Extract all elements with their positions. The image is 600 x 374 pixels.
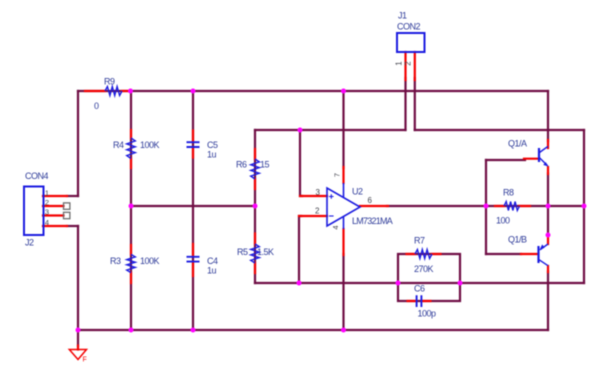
svg-text:4: 4 [45, 218, 49, 227]
svg-text:F: F [83, 357, 87, 364]
resistor R3 pins [130, 245, 132, 283]
capacitor C5 plates [187, 142, 200, 147]
resistor R5 zigzag [251, 244, 260, 263]
wire Q1/B base link [486, 253, 521, 255]
wire R4/R3 column [130, 91, 132, 330]
ground pin stub [77, 346, 79, 350]
connector J2 pin2 no-connect square [64, 203, 70, 209]
svg-text:J2: J2 [25, 238, 34, 248]
connector J1 box [397, 33, 425, 52]
svg-text:4: 4 [331, 225, 340, 229]
svg-text:R6: R6 [236, 160, 247, 170]
wire Q1/B collector vertical [547, 272, 549, 331]
svg-text:2: 2 [404, 61, 413, 66]
op-amp pin 2 lead [299, 215, 327, 217]
svg-text:100K: 100K [140, 140, 160, 150]
op-amp pin7 inner lead [343, 183, 345, 197]
svg-text:6: 6 [368, 196, 373, 205]
wire op-amp pin2 branch [299, 216, 301, 283]
op-amp pin 6 output lead [360, 205, 388, 207]
wire op-amp pin7 branch [342, 91, 344, 168]
op-amp pin 3 lead [300, 195, 327, 197]
connector J2 box [24, 187, 44, 236]
op-amp pin4 inner lead [343, 217, 345, 229]
svg-text:15: 15 [260, 160, 270, 170]
svg-text:1: 1 [45, 188, 49, 197]
wire op-amp pin3 branch [300, 130, 302, 196]
resistor R4 pins [130, 130, 132, 168]
resistor R5 pins [254, 234, 256, 274]
svg-text:270K: 270K [414, 264, 434, 274]
capacitor C4 pins [192, 244, 194, 276]
wire J2 pin4 link [67, 225, 78, 227]
wire Q1/A base link [486, 159, 525, 161]
svg-text:R8: R8 [503, 188, 514, 198]
wire Q1 emitters vertical [547, 174, 549, 237]
svg-text:Q1/A: Q1/A [508, 139, 527, 149]
svg-text:R4: R4 [113, 140, 124, 150]
resistor R9 zigzag [105, 87, 122, 96]
svg-text:C5: C5 [207, 140, 218, 150]
wire J1 pin2 vertical [414, 78, 416, 130]
wire middle horizontal R4-R6 [131, 205, 255, 207]
ground symbol [69, 350, 86, 360]
svg-text:R9: R9 [104, 77, 115, 87]
wire Q1 base column [485, 160, 487, 254]
resistor R9 pins [85, 90, 129, 92]
svg-text:CON4: CON4 [25, 171, 48, 181]
wire R6/R5 column [254, 130, 256, 283]
wire R7/C6 loop [398, 254, 460, 301]
wire C5/C4 column [192, 91, 194, 330]
op-amp U1 triangle [327, 188, 360, 226]
svg-text:Q1/B: Q1/B [508, 235, 527, 245]
wire node net y130 left [255, 129, 406, 131]
svg-text:1.5K: 1.5K [257, 247, 274, 257]
resistor R7 pins [407, 253, 441, 255]
resistor R4 zigzag [127, 138, 136, 159]
wire bottom ground rail [78, 329, 548, 331]
op-amp minus sign [329, 215, 334, 217]
resistor R6 pins [254, 149, 256, 189]
capacitor C5 pins [192, 131, 194, 158]
svg-text:C6: C6 [414, 284, 425, 294]
wire ground lead [77, 330, 79, 346]
wire right vertical x584 [583, 130, 585, 283]
op-amp plus sign [329, 194, 334, 199]
wire top rail [78, 90, 548, 92]
svg-text:3: 3 [316, 188, 321, 197]
svg-text:R5: R5 [237, 247, 248, 257]
svg-text:CON2: CON2 [397, 22, 420, 32]
svg-text:LM7321MA: LM7321MA [352, 216, 393, 226]
capacitor C6 pins [408, 300, 431, 302]
resistor R8 zigzag [504, 202, 520, 211]
wire J2 pin1 link [67, 195, 78, 197]
wire Q1/A collector vertical [547, 91, 549, 141]
resistor R3 zigzag [127, 254, 136, 272]
svg-text:100p: 100p [418, 309, 437, 319]
svg-text:1: 1 [395, 61, 404, 66]
transistor Q1/B symbol [539, 244, 549, 266]
svg-text:U2: U2 [352, 187, 363, 197]
capacitor C4 plates [187, 257, 200, 262]
svg-text:J1: J1 [398, 11, 407, 21]
resistor R6 zigzag [251, 159, 260, 179]
wire op-amp pin4 branch [342, 254, 344, 330]
svg-text:7: 7 [333, 173, 342, 177]
wire feedback horizontal [255, 282, 584, 284]
connector J1 pins [406, 52, 415, 80]
connector J2 pin leads [43, 196, 67, 226]
wire left vertical upper (J2 pin1 to top rail) [77, 91, 79, 196]
svg-text:2: 2 [45, 198, 49, 207]
op-amp pin 4 lead [342, 229, 344, 255]
wire output line to R8 net [387, 205, 584, 207]
wire J1 pin1 vertical [404, 78, 406, 130]
svg-text:3: 3 [45, 207, 49, 216]
transistor Q1/A pin stubs [524, 140, 548, 174]
transistor Q1/A symbol [539, 146, 549, 166]
op-amp pin 7 lead [342, 167, 344, 183]
resistor R7 zigzag [415, 250, 432, 259]
svg-text:100: 100 [496, 216, 510, 226]
svg-text:1u: 1u [207, 150, 217, 160]
connector J2 pin3 no-connect square [64, 212, 70, 218]
svg-text:2: 2 [315, 207, 320, 216]
wire left vertical lower (J2 pin4 to ground rail) [77, 226, 79, 330]
svg-text:R7: R7 [414, 236, 425, 246]
resistor R8 pins [495, 205, 530, 207]
transistor Q1/B pin stubs [521, 236, 548, 272]
svg-text:C4: C4 [207, 256, 218, 266]
svg-text:R3: R3 [110, 256, 121, 266]
svg-text:1u: 1u [207, 266, 217, 276]
capacitor C6 plates [417, 295, 422, 307]
svg-text:100K: 100K [140, 256, 160, 266]
wire node net y130 right [415, 129, 584, 131]
svg-text:0: 0 [94, 101, 99, 111]
